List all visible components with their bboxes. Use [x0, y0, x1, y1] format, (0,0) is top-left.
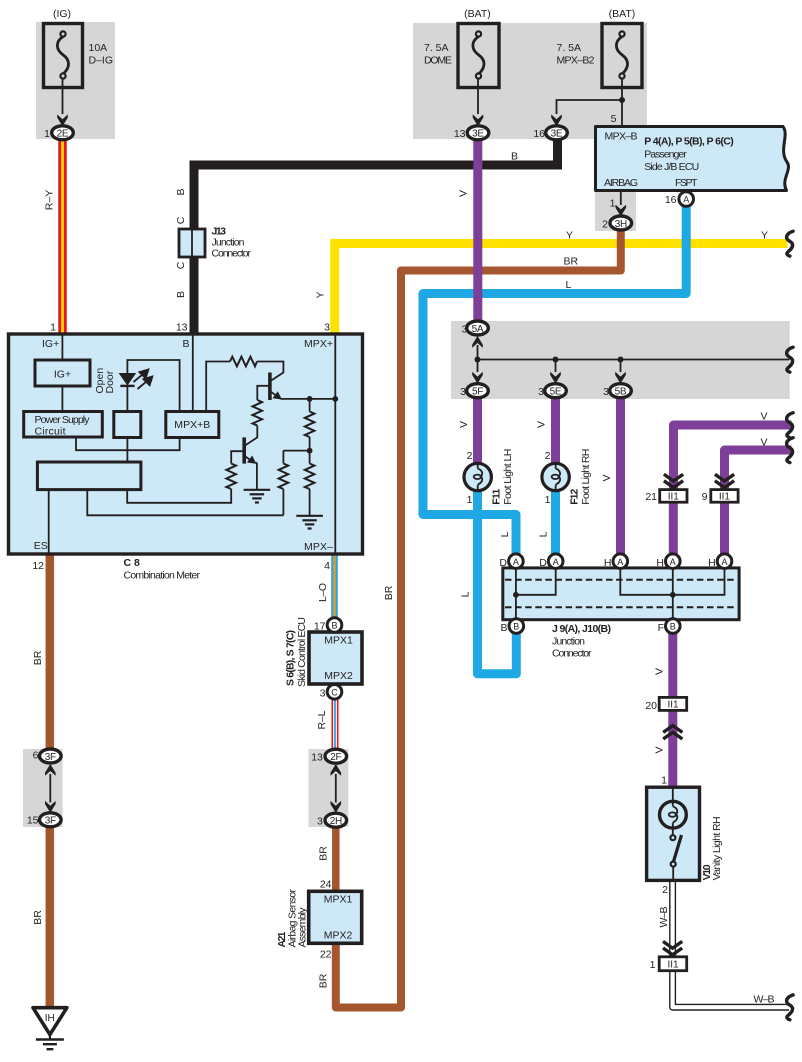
svg-text:Side J/B ECU: Side J/B ECU	[644, 161, 699, 173]
wire W-B II1 to right edge : black outer	[673, 971, 789, 1008]
gray band middle (5A/5F/5E/5B)	[451, 321, 790, 399]
F11 foot light LH lamp	[464, 463, 491, 490]
svg-text:1: 1	[44, 128, 50, 140]
arrow into 3(5F)	[472, 372, 483, 384]
break squiggle yellow wire	[787, 231, 793, 256]
Q1 emitter rail to MPX line	[281, 398, 336, 400]
connector oval 3F top	[40, 749, 62, 763]
svg-text:D: D	[539, 557, 547, 569]
svg-text:3F: 3F	[45, 752, 56, 763]
svg-text:H: H	[708, 557, 716, 569]
chevron into 9 II1	[715, 474, 734, 487]
svg-text:Vanity Light RH: Vanity Light RH	[711, 816, 723, 880]
chevron up from 20 II1	[663, 726, 682, 739]
wire V purple 20 II1 to V10 pin1	[668, 711, 677, 789]
svg-text:5E: 5E	[550, 387, 562, 398]
ground Q2 emitter	[244, 490, 271, 503]
V10 vanity light RH box	[647, 787, 700, 880]
svg-text:2F: 2F	[330, 752, 341, 763]
break squiggle W-B wire	[787, 995, 793, 1020]
svg-text:2: 2	[545, 450, 551, 462]
wire Y yellow main	[335, 244, 788, 335]
svg-text:V: V	[536, 421, 548, 428]
svg-text:B: B	[175, 188, 187, 195]
svg-text:13: 13	[311, 752, 323, 764]
svg-text:Skid Control ECU: Skid Control ECU	[296, 617, 308, 687]
svg-text:Combination Meter: Combination Meter	[124, 570, 201, 582]
svg-text:BR: BR	[318, 846, 330, 861]
svg-text:21: 21	[645, 491, 657, 503]
fuse DOME symbol	[473, 31, 484, 78]
wire R-Y yellow stripe	[61, 140, 64, 334]
A21 airbag sensor assembly box	[309, 891, 362, 943]
svg-text:IH: IH	[45, 1013, 55, 1024]
svg-text:R–L: R–L	[316, 710, 328, 729]
svg-text:24: 24	[320, 879, 332, 891]
LED open door	[119, 373, 137, 386]
svg-text:V: V	[653, 746, 665, 753]
svg-text:20: 20	[645, 700, 657, 712]
wire W-B vanity to II1 : black outer	[669, 880, 676, 957]
wire L cyan F12 pin1 to D(A)	[551, 490, 560, 554]
wire V purple F(B) to 20 II1	[668, 634, 677, 698]
svg-text:L: L	[460, 591, 472, 597]
wire BR brown 3F to IH ground	[46, 827, 55, 1009]
svg-text:H: H	[656, 557, 664, 569]
connector oval 5F	[467, 384, 489, 398]
svg-text:BR: BR	[564, 256, 579, 268]
pin circle B bottom F	[666, 619, 681, 634]
ground R5	[296, 516, 323, 529]
svg-text:MPX2: MPX2	[324, 930, 353, 942]
resistor top horizontal	[230, 357, 257, 367]
Q1 transistor bar	[268, 373, 272, 401]
svg-text:W–B: W–B	[658, 907, 670, 928]
svg-text:3F: 3F	[45, 816, 56, 827]
wire V purple right top to 21 II1	[674, 425, 792, 490]
link 2F-2H	[335, 774, 337, 803]
svg-text:Foot Light LH: Foot Light LH	[502, 449, 514, 505]
svg-text:B: B	[183, 338, 190, 350]
svg-text:V: V	[601, 474, 613, 481]
svg-text:MPX1: MPX1	[324, 894, 353, 906]
resistor R5	[305, 464, 315, 490]
svg-text:B: B	[513, 622, 519, 632]
svg-text:J 9(A), J10(B): J 9(A), J10(B)	[552, 623, 611, 635]
svg-text:Junction: Junction	[552, 636, 585, 648]
IG+ inner box	[35, 360, 90, 386]
svg-text:F12: F12	[568, 489, 580, 505]
svg-text:2: 2	[602, 219, 608, 231]
svg-text:MPX–B2: MPX–B2	[557, 55, 595, 67]
svg-text:BR: BR	[318, 973, 330, 988]
junction dot fuse branch	[619, 97, 625, 103]
svg-text:9: 9	[702, 491, 708, 503]
svg-text:3E: 3E	[472, 129, 484, 140]
svg-text:(IG): (IG)	[53, 8, 71, 20]
svg-text:3: 3	[324, 322, 330, 334]
svg-text:L: L	[566, 279, 572, 291]
connector oval 3F bottom	[40, 813, 62, 827]
resistor R2	[305, 412, 315, 438]
svg-text:S 6(B), S 7(C): S 6(B), S 7(C)	[284, 630, 296, 686]
R2 leads	[309, 399, 311, 451]
arrow up into 3(5A)	[472, 336, 483, 348]
wire resistor to Q1 collector	[257, 362, 283, 381]
svg-text:4: 4	[324, 560, 330, 572]
fuse D-IG box	[44, 24, 83, 88]
svg-text:A: A	[683, 195, 689, 205]
lead AIRBAG pin1 to 3H	[620, 191, 622, 205]
svg-text:MPX2: MPX2	[324, 670, 353, 682]
wire PSC to MPX+B bottom	[76, 437, 180, 450]
wire IG+ box to power supply	[61, 386, 63, 412]
gray panel middle 2F/2H	[309, 749, 349, 827]
Q2 emitter down to ground	[256, 462, 257, 489]
J13 junction connector box	[179, 229, 205, 257]
break squiggle V wire 2	[787, 438, 793, 463]
lead fuse MPX-B2 branch	[557, 79, 623, 115]
wire BR brown 3(2H) to A21 pin24	[332, 827, 340, 892]
svg-text:V: V	[760, 437, 767, 449]
R4 bottom to wide box	[87, 490, 283, 516]
svg-text:5F: 5F	[472, 387, 483, 398]
pin circle A4 H	[666, 554, 681, 569]
gray panel top-right (BAT fuse block)	[413, 23, 647, 139]
svg-text:(BAT): (BAT)	[609, 8, 636, 20]
II1 box 21	[660, 490, 687, 503]
wire V purple 13(3E) to 5A	[473, 139, 482, 322]
wire V purple 5B to H(A)	[616, 397, 625, 554]
svg-text:C 8: C 8	[124, 557, 141, 569]
svg-text:B: B	[670, 622, 676, 632]
wire R-L blue stripe	[334, 699, 336, 750]
wire V purple 5F to F11	[473, 397, 482, 464]
connector oval 3E pin13	[467, 126, 489, 140]
wire R-L 3(C) to 13(2F) : red base	[332, 699, 339, 750]
svg-text:22: 22	[320, 949, 332, 961]
II1 box 1	[659, 957, 687, 971]
svg-text:5B: 5B	[615, 387, 627, 398]
svg-text:1: 1	[50, 322, 56, 334]
svg-text:Connector: Connector	[212, 248, 252, 260]
svg-text:Connector: Connector	[552, 648, 592, 660]
svg-text:15: 15	[27, 815, 39, 827]
svg-text:A: A	[513, 557, 519, 567]
svg-text:MPX–: MPX–	[304, 541, 333, 553]
fuse D-IG symbol	[57, 31, 68, 78]
chevron into 21 II1	[664, 474, 683, 487]
svg-text:17: 17	[314, 621, 326, 633]
svg-text:A: A	[617, 557, 623, 567]
II1 box 20	[659, 697, 687, 710]
J9 J10 junction connector box	[503, 568, 739, 620]
svg-text:ES: ES	[34, 540, 48, 552]
arrow up to 13(2F)	[331, 764, 342, 776]
svg-text:C: C	[175, 261, 187, 269]
svg-text:7. 5A: 7. 5A	[424, 42, 449, 54]
svg-text:FSPT: FSPT	[675, 177, 698, 189]
svg-text:1: 1	[650, 959, 656, 971]
pin circle B skid top	[327, 618, 342, 633]
ES line from wide box to pin12	[48, 490, 50, 553]
wire MPX+ to MPX- vertical	[334, 336, 336, 553]
lead MPX-B2 to ECU pin5	[621, 100, 623, 127]
svg-text:V: V	[458, 190, 470, 197]
Q1 base link to R1	[257, 386, 269, 400]
svg-text:V: V	[760, 411, 767, 423]
svg-text:F: F	[658, 622, 664, 634]
wire BR brown 3H to A21 MPX2	[336, 230, 621, 1008]
pin circle B bottom left	[509, 619, 524, 634]
svg-text:3H: 3H	[615, 219, 627, 230]
svg-text:D–IG: D–IG	[89, 55, 114, 67]
svg-text:2E: 2E	[57, 129, 69, 140]
pin circle A FSPT	[679, 192, 694, 207]
resistor R1	[252, 400, 262, 426]
R3 bottom to wide box	[127, 489, 231, 503]
connector oval 5E	[545, 384, 567, 398]
svg-text:Passenger: Passenger	[644, 149, 687, 161]
wire LED cathode to relay box	[126, 386, 128, 412]
LED emission arrows	[134, 370, 153, 389]
gray panel airbag pin 3H	[595, 192, 636, 232]
pin circle C skid bottom	[327, 685, 342, 700]
lead fuse IG to 2E	[62, 79, 64, 115]
svg-text:B: B	[175, 291, 187, 298]
svg-text:16: 16	[533, 128, 545, 140]
Q2 transistor bar	[242, 437, 246, 463]
wire V purple 9 II1 to H(A)	[720, 502, 729, 554]
wide bottom box	[37, 462, 140, 490]
Q1 emitter with arrow	[271, 392, 278, 397]
power supply circuit box	[24, 412, 103, 438]
svg-text:II1: II1	[719, 492, 731, 503]
lead fuse DOME to 13(3E)	[477, 79, 479, 115]
svg-text:L: L	[499, 531, 511, 537]
svg-text:A: A	[721, 557, 727, 567]
rail dots	[475, 357, 481, 363]
break squiggle rail	[787, 347, 793, 372]
connector oval 2F	[325, 749, 347, 763]
connector oval 3H	[610, 216, 632, 230]
pin circle A2 D	[548, 554, 563, 569]
arrow down to 15(3F)	[45, 801, 56, 813]
svg-text:7. 5A: 7. 5A	[557, 42, 582, 54]
gray panel left 3F/3F	[23, 749, 63, 827]
combination meter C8 box	[9, 334, 363, 554]
svg-text:R–Y: R–Y	[44, 190, 56, 210]
svg-text:5: 5	[611, 113, 617, 125]
connector oval 5B	[610, 384, 632, 398]
svg-text:Assembly: Assembly	[297, 907, 309, 948]
svg-text:Power Supply: Power Supply	[35, 414, 91, 426]
svg-text:3: 3	[538, 386, 544, 398]
gray panel top-left (IG fuse block)	[36, 22, 115, 139]
svg-text:(BAT): (BAT)	[464, 8, 491, 20]
svg-text:II1: II1	[668, 492, 680, 503]
svg-text:3: 3	[317, 816, 323, 828]
arrow down to 3(2H)	[331, 801, 342, 813]
svg-text:3E: 3E	[551, 129, 563, 140]
wire pin1 to IG+ box	[61, 336, 63, 361]
svg-text:1: 1	[467, 494, 473, 506]
svg-text:1: 1	[610, 198, 616, 210]
wire LED anode to MPX+B	[127, 360, 179, 412]
svg-text:F11: F11	[490, 489, 502, 505]
svg-text:Y: Y	[566, 230, 573, 242]
svg-text:BR: BR	[32, 650, 44, 665]
svg-text:2: 2	[467, 450, 473, 462]
fuse DOME box	[458, 24, 499, 88]
svg-text:II1: II1	[667, 700, 679, 711]
svg-text:3: 3	[460, 386, 466, 398]
arrow into 3(5E)	[550, 372, 561, 384]
wire relay box to wide box	[126, 437, 128, 462]
svg-text:2: 2	[662, 884, 668, 896]
Q2 emitter with arrow	[245, 456, 251, 460]
svg-text:C: C	[331, 687, 338, 697]
svg-text:12: 12	[32, 560, 44, 572]
svg-text:A: A	[553, 557, 559, 567]
ground IH triangle	[33, 1008, 67, 1049]
break squiggle V wire 1	[787, 413, 793, 438]
R5 leads	[309, 451, 311, 516]
wire L-O orange stripe	[333, 554, 335, 618]
svg-text:II1: II1	[667, 960, 679, 971]
node Q1 emitter/R2	[307, 396, 313, 402]
resistor R3	[226, 464, 236, 490]
svg-text:P 4(A), P 5(B), P 6(C): P 4(A), P 5(B), P 6(C)	[644, 136, 734, 148]
svg-text:L: L	[538, 531, 550, 537]
skid control ECU box	[309, 632, 362, 684]
svg-text:Circuit: Circuit	[35, 426, 66, 438]
svg-text:MPX+B: MPX+B	[174, 419, 210, 431]
svg-text:C: C	[175, 216, 187, 224]
svg-text:3: 3	[603, 386, 609, 398]
THINLINES	[50, 79, 789, 803]
svg-text:D: D	[499, 557, 507, 569]
wire V purple right 2 to 9 II1	[725, 450, 792, 490]
wire L cyan A(FSPT) to D(A)	[423, 206, 686, 554]
svg-text:16: 16	[665, 194, 677, 206]
svg-text:V: V	[653, 668, 665, 675]
svg-text:AIRBAG: AIRBAG	[604, 177, 638, 189]
fuse MPX-B2 box	[602, 24, 642, 88]
svg-text:Y: Y	[761, 230, 768, 242]
svg-text:Y: Y	[315, 291, 327, 298]
connector oval 5A	[467, 321, 489, 335]
resistor R4	[279, 464, 289, 490]
wire R-Y red	[58, 140, 67, 334]
arrow up to 6(3F)	[45, 764, 56, 776]
Q2 base link to R3	[231, 451, 243, 463]
svg-text:13: 13	[454, 128, 466, 140]
pin circle A1 D	[509, 554, 524, 569]
relay small box	[114, 412, 141, 438]
svg-text:BR: BR	[383, 585, 395, 600]
R4 leads	[282, 451, 284, 516]
svg-text:B: B	[500, 622, 507, 634]
svg-text:1: 1	[661, 775, 667, 787]
svg-text:A: A	[670, 557, 676, 567]
node R2/R4/R5	[307, 448, 313, 454]
arrow into 2(3H)	[616, 205, 627, 217]
svg-text:W–B: W–B	[754, 994, 775, 1006]
arrow into 2E	[57, 114, 68, 126]
pin circle A5 H	[717, 554, 732, 569]
pin circle A3 H	[613, 554, 628, 569]
chevron into 1 II1	[663, 941, 682, 954]
wire R-L white gap	[333, 699, 337, 750]
rail 5A to 5F/5E/5B	[477, 345, 479, 360]
wire resistor top feed	[206, 362, 230, 412]
svg-text:6: 6	[33, 750, 39, 762]
connector oval 3E pin16	[546, 126, 568, 140]
wire pin13 B to MPX+B	[192, 336, 194, 413]
wire BR brown meter ES to 3F	[46, 554, 55, 750]
wire L cyan F11 pin1 to B(B)	[478, 490, 517, 674]
svg-text:B: B	[511, 151, 518, 163]
link 3F-3F	[49, 774, 51, 803]
R1 bottom to Q2 collector	[245, 426, 257, 446]
svg-text:1: 1	[545, 494, 551, 506]
ECU P4 P5 P6 passenger side J/B box	[596, 127, 789, 191]
svg-text:V: V	[458, 421, 470, 428]
arrow into 3(5B)	[615, 372, 626, 384]
svg-text:IG+: IG+	[54, 369, 71, 381]
wire V purple 5E to F12	[551, 397, 560, 464]
svg-text:MPX+: MPX+	[304, 338, 333, 350]
svg-text:MPX1: MPX1	[324, 635, 353, 647]
R4/R2 join line	[283, 450, 309, 452]
svg-text:DOME: DOME	[424, 55, 452, 67]
wire V purple 21 II1 to H(A)	[669, 502, 678, 554]
svg-text:L–O: L–O	[317, 583, 329, 602]
connector oval 2H	[325, 813, 347, 827]
meter internals	[49, 336, 336, 553]
svg-text:10A: 10A	[89, 42, 108, 54]
svg-text:2H: 2H	[330, 816, 342, 827]
II1 box 9	[711, 490, 738, 503]
node MPX line	[332, 396, 338, 402]
svg-text:5A: 5A	[472, 324, 484, 335]
fuse MPX-B2 symbol	[616, 31, 627, 78]
svg-text:IG+: IG+	[42, 338, 59, 350]
svg-text:13: 13	[176, 322, 188, 334]
connector oval 2E	[52, 126, 74, 140]
svg-text:H: H	[604, 557, 612, 569]
svg-text:3: 3	[462, 324, 468, 336]
svg-text:B: B	[331, 621, 337, 631]
arrow into 16(3E)	[551, 114, 562, 126]
wire L-O meter pin4 to 17(B) : cyan base	[331, 554, 338, 618]
arrow into 13(3E)	[473, 114, 484, 126]
svg-text:Foot Light RH: Foot Light RH	[580, 449, 592, 505]
F12 foot light RH lamp	[542, 463, 569, 490]
svg-text:MPX–B: MPX–B	[605, 131, 638, 143]
wire B black from 16(3E) to meter pin 13	[194, 139, 558, 334]
svg-text:Door: Door	[104, 370, 116, 393]
svg-text:3: 3	[320, 688, 326, 700]
MPX+B box	[166, 412, 219, 438]
svg-text:BR: BR	[32, 910, 44, 925]
